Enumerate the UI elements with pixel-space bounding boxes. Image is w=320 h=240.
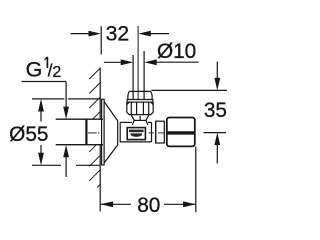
dim 32 right arrow	[138, 31, 151, 37]
wall face line	[99, 68, 101, 212]
dimension 80	[101, 147, 196, 213]
GROHE logo plate	[127, 128, 145, 140]
escutcheon cone	[104, 102, 120, 164]
escutcheon flange disc	[102, 99, 105, 165]
valve body block	[120, 122, 151, 141]
dim O55 down arrow	[38, 153, 44, 166]
pipe centerline / 32 extension	[137, 26, 139, 100]
dim O55 up arrow	[38, 99, 44, 112]
svg-text:80: 80	[137, 194, 160, 217]
dim O10 left arrow	[121, 59, 134, 65]
label G 1/2 : numerator 1	[45, 57, 48, 68]
dim 32 left arrow	[89, 31, 102, 37]
dim 35 down arrow	[214, 78, 220, 91]
inlet funnel V	[131, 115, 149, 125]
threaded tail G1/2 into wall	[56, 119, 103, 145]
knob groove band	[167, 131, 195, 134]
dim 80 left arrow	[101, 201, 114, 207]
svg-text:32: 32	[106, 22, 130, 45]
svg-text:G: G	[26, 58, 43, 82]
dim 80 right arrow	[183, 201, 196, 207]
axis centerline dashes	[88, 132, 164, 134]
dim O10 right arrow	[144, 59, 157, 65]
svg-text:35: 35	[204, 99, 227, 122]
copper pipe	[133, 51, 144, 100]
svg-text:Ø55: Ø55	[9, 123, 48, 146]
svg-text:2: 2	[52, 64, 61, 81]
dimension 32	[71, 26, 170, 54]
dimension Ø10	[104, 61, 199, 63]
compression nut	[127, 91, 153, 114]
dim 35 up arrow	[214, 133, 220, 146]
G1/2 up arrow	[63, 145, 69, 158]
dimension 35	[152, 62, 228, 164]
svg-text:Ø10: Ø10	[157, 40, 196, 63]
wall hatching	[89, 68, 100, 188]
dimension Ø55	[32, 99, 100, 165]
neck ring	[156, 121, 165, 143]
G1/2 down arrow	[63, 107, 69, 120]
G1/2 leader	[22, 82, 67, 178]
handle knob	[167, 118, 195, 147]
